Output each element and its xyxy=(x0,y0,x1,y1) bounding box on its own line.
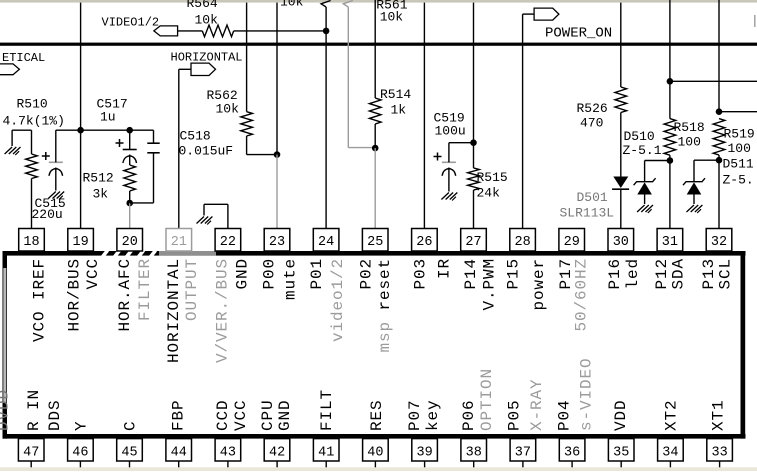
wire xyxy=(31,179,33,229)
capacitor C517 xyxy=(97,97,137,166)
diode D501 xyxy=(560,177,630,221)
svg-text:power: power xyxy=(530,258,548,311)
svg-text:10k: 10k xyxy=(195,13,219,28)
svg-text:10k: 10k xyxy=(216,102,240,117)
pin 29 label xyxy=(557,258,591,332)
svg-text:R526: R526 xyxy=(577,101,608,116)
svg-text:46: 46 xyxy=(72,445,88,460)
resistor R561 xyxy=(376,0,407,25)
wire xyxy=(130,202,154,204)
wire xyxy=(204,204,228,228)
wire xyxy=(80,3,82,229)
svg-text:27: 27 xyxy=(465,235,481,250)
svg-text:GND: GND xyxy=(276,399,294,431)
svg-text:43: 43 xyxy=(220,445,236,460)
svg-text:P07: P07 xyxy=(406,399,424,431)
pin 28 label xyxy=(505,258,549,311)
svg-text:32: 32 xyxy=(711,235,727,250)
svg-text:44: 44 xyxy=(171,445,187,460)
svg-text:1u: 1u xyxy=(100,110,116,125)
svg-text:reset: reset xyxy=(376,258,394,311)
resistor R514 xyxy=(369,87,411,124)
svg-text:100: 100 xyxy=(728,141,751,156)
pin 24 label xyxy=(308,258,347,342)
wire xyxy=(178,30,203,32)
svg-text:45: 45 xyxy=(121,445,137,460)
svg-text:msp: msp xyxy=(376,321,394,353)
svg-text:33: 33 xyxy=(711,445,727,460)
wire (cropped) xyxy=(754,15,756,27)
pin 42 label xyxy=(259,399,294,431)
svg-text:30: 30 xyxy=(613,235,629,250)
svg-text:D510: D510 xyxy=(624,129,655,144)
node POWER_ON xyxy=(523,8,613,41)
svg-text:220u: 220u xyxy=(32,207,63,222)
svg-text:100u: 100u xyxy=(435,124,466,139)
ground xyxy=(441,193,457,201)
capacitor C515 xyxy=(32,130,66,222)
pin 37 label xyxy=(506,378,547,431)
svg-text:mute: mute xyxy=(281,258,299,300)
pin 27 label xyxy=(462,258,499,311)
resistor (cropped) xyxy=(343,1,353,8)
svg-text:HORIZONTAL: HORIZONTAL xyxy=(165,258,183,363)
pin 43 label xyxy=(214,399,250,431)
svg-text:GND: GND xyxy=(234,258,252,290)
pin 36 xyxy=(559,439,585,468)
svg-text:X-RAY: X-RAY xyxy=(528,378,546,431)
pin 37 xyxy=(510,439,536,468)
svg-text:38: 38 xyxy=(466,445,482,460)
ground xyxy=(637,205,653,213)
node (junction) xyxy=(126,127,133,134)
pin 25 label (msp) xyxy=(376,321,394,353)
svg-text:35: 35 xyxy=(613,445,629,460)
wire xyxy=(56,129,81,131)
svg-text:D501: D501 xyxy=(577,190,608,205)
resistor R526 xyxy=(577,87,627,131)
svg-text:42: 42 xyxy=(269,445,285,460)
pin 34 label xyxy=(662,399,680,431)
svg-text:19: 19 xyxy=(72,235,88,250)
svg-text:R IN: R IN xyxy=(25,389,43,431)
node (junction) xyxy=(372,145,379,152)
svg-text:key: key xyxy=(424,399,442,431)
resistor (cropped) 10k xyxy=(280,0,331,10)
resistor R518 xyxy=(664,119,705,156)
svg-text:FBP: FBP xyxy=(170,399,188,431)
pin 19 label xyxy=(66,258,103,332)
svg-text:22: 22 xyxy=(220,235,236,250)
svg-text:P13: P13 xyxy=(700,258,718,290)
pin 18 xyxy=(19,229,45,252)
svg-text:29: 29 xyxy=(564,235,580,250)
svg-text:40: 40 xyxy=(367,445,383,460)
pin 26 label xyxy=(411,258,453,290)
svg-text:R564: R564 xyxy=(187,0,218,11)
diode D510 (zener) xyxy=(623,129,670,204)
wire xyxy=(325,7,327,229)
svg-text:HORIZONTAL: HORIZONTAL xyxy=(171,51,243,65)
wire xyxy=(129,203,131,229)
svg-text:VCC: VCC xyxy=(84,258,102,290)
wire xyxy=(718,160,720,228)
pin 21 xyxy=(166,229,192,252)
node VERTICAL xyxy=(0,51,45,75)
pin 30 label xyxy=(606,258,642,290)
svg-text:18: 18 xyxy=(23,235,39,250)
wire xyxy=(276,155,278,229)
pin 30 xyxy=(608,229,634,252)
svg-text:0.015uF: 0.015uF xyxy=(179,144,234,159)
svg-text:1k: 1k xyxy=(391,103,407,118)
node (junction) xyxy=(667,157,674,164)
pin 47 label xyxy=(25,389,64,431)
svg-text:31: 31 xyxy=(662,235,678,250)
svg-text:P04: P04 xyxy=(556,399,574,431)
svg-text:39: 39 xyxy=(416,445,432,460)
wire xyxy=(423,3,425,229)
wire xyxy=(522,14,524,228)
pin 40 xyxy=(363,439,389,468)
svg-text:21: 21 xyxy=(171,235,187,250)
wire xyxy=(620,189,622,228)
svg-text:100: 100 xyxy=(678,135,701,150)
wire xyxy=(374,148,376,229)
wire xyxy=(669,0,671,81)
svg-text:RES: RES xyxy=(368,399,386,431)
svg-text:P03: P03 xyxy=(411,258,429,290)
svg-text:4.7k(1%): 4.7k(1%) xyxy=(3,114,65,129)
svg-text:D511: D511 xyxy=(723,157,754,172)
wire xyxy=(620,113,622,177)
svg-text:26: 26 xyxy=(416,235,432,250)
watermark on IC edge xyxy=(100,249,216,259)
svg-text:P02: P02 xyxy=(357,258,375,290)
svg-text:SCL: SCL xyxy=(717,258,735,290)
svg-text:R518: R518 xyxy=(674,120,705,135)
pin 38 label xyxy=(460,368,496,431)
pin 32 label xyxy=(700,258,735,290)
node VIDEO1/2 xyxy=(102,16,178,36)
ground xyxy=(48,192,64,200)
svg-text:P14: P14 xyxy=(462,258,480,290)
svg-text:s-VIDEO: s-VIDEO xyxy=(578,357,596,431)
pin 23 xyxy=(264,229,290,252)
pin 20 xyxy=(117,229,143,252)
svg-text:24: 24 xyxy=(318,235,334,250)
wire xyxy=(670,80,757,82)
svg-text:OPTION: OPTION xyxy=(478,368,496,431)
svg-text:24k: 24k xyxy=(477,186,501,201)
wire xyxy=(473,3,475,143)
pin 25 label xyxy=(357,258,394,311)
wire xyxy=(81,129,130,131)
svg-text:28: 28 xyxy=(514,235,530,250)
svg-text:10k: 10k xyxy=(380,10,404,25)
wire xyxy=(449,142,474,144)
svg-text:HOR/BUS: HOR/BUS xyxy=(66,258,84,332)
wire xyxy=(246,3,248,112)
pin 39 xyxy=(412,439,438,468)
pin 18 label xyxy=(31,258,49,342)
wire xyxy=(620,3,622,87)
svg-text:V/VER./BUS: V/VER./BUS xyxy=(214,258,232,363)
ground xyxy=(5,147,21,155)
svg-text:25: 25 xyxy=(367,235,383,250)
capacitor C518 xyxy=(147,129,233,203)
svg-text:P05: P05 xyxy=(506,399,524,431)
svg-text:R519: R519 xyxy=(724,127,755,142)
svg-text:R510: R510 xyxy=(17,97,48,112)
ground xyxy=(197,217,213,225)
capacitor C519 xyxy=(434,111,466,192)
pin 22 label xyxy=(214,258,252,363)
svg-text:VDD: VDD xyxy=(612,399,630,431)
pin 22 xyxy=(215,229,241,252)
wire xyxy=(247,136,277,155)
op-amp U1 (IC body top edge) xyxy=(3,251,746,256)
pin 27 xyxy=(461,229,487,252)
diode D511 (zener) xyxy=(683,157,754,205)
svg-text:36: 36 xyxy=(564,445,580,460)
node (junction) xyxy=(77,127,84,134)
resistor R512 xyxy=(83,165,136,202)
pin 21 label xyxy=(165,258,201,363)
pin 24 xyxy=(313,229,339,252)
IC body left edge watermark xyxy=(3,268,6,403)
resistor R519 xyxy=(713,119,755,156)
svg-text:P16: P16 xyxy=(606,258,624,290)
svg-text:R514: R514 xyxy=(380,87,411,102)
wire xyxy=(374,124,376,148)
wire xyxy=(129,191,131,203)
pin 35 label xyxy=(612,399,630,431)
wire xyxy=(669,161,671,229)
svg-text:50/60HZ: 50/60HZ xyxy=(573,258,591,332)
svg-text:SDA: SDA xyxy=(670,258,688,290)
svg-text:41: 41 xyxy=(318,445,334,460)
node (junction) xyxy=(274,151,281,158)
wire xyxy=(130,129,154,131)
svg-text:FILT: FILT xyxy=(318,389,336,431)
wire xyxy=(276,3,278,155)
pin 48 label (cropped) xyxy=(0,389,13,431)
pin 46 label xyxy=(72,420,90,431)
pin 25 xyxy=(362,229,388,252)
node HORIZONTAL xyxy=(171,51,243,76)
svg-text:P01: P01 xyxy=(308,258,326,290)
svg-text:FILTER: FILTER xyxy=(136,258,154,321)
node (junction) xyxy=(470,139,477,146)
pin 19 xyxy=(68,229,94,252)
svg-text:470: 470 xyxy=(580,116,603,131)
pin 32 xyxy=(706,229,732,252)
pin 41 xyxy=(313,439,339,468)
svg-text:V.PWM: V.PWM xyxy=(481,258,499,311)
svg-text:ETICAL: ETICAL xyxy=(2,51,45,65)
pin 45 label xyxy=(122,420,140,431)
wire xyxy=(718,155,720,160)
wire xyxy=(374,0,376,98)
svg-text:OUTPUT: OUTPUT xyxy=(183,258,201,321)
pin 31 xyxy=(657,229,683,252)
wire xyxy=(669,81,671,160)
pin 39 label xyxy=(406,399,442,431)
pin 42 xyxy=(264,439,290,468)
svg-text:23: 23 xyxy=(269,235,285,250)
resistor R515 xyxy=(468,168,508,201)
pin 35 xyxy=(608,439,634,468)
pin 43 xyxy=(215,439,241,468)
svg-text:VCO IREF: VCO IREF xyxy=(31,258,49,342)
pin 33 xyxy=(707,439,733,468)
node (junction) xyxy=(716,157,723,164)
svg-text:video1/2: video1/2 xyxy=(329,258,347,342)
wire xyxy=(718,0,720,112)
pin 23 label xyxy=(260,258,299,300)
pin 40 label xyxy=(368,399,386,431)
svg-text:led: led xyxy=(624,258,642,290)
svg-text:R515: R515 xyxy=(477,170,508,185)
pin 41 label xyxy=(318,389,336,431)
pin 20 label xyxy=(116,258,154,332)
svg-text:VCC: VCC xyxy=(232,399,250,431)
svg-text:P06: P06 xyxy=(460,399,478,431)
svg-text:C: C xyxy=(122,420,140,431)
svg-text:47: 47 xyxy=(23,445,39,460)
pin 28 xyxy=(510,229,536,252)
pin 46 xyxy=(68,439,94,468)
svg-text:P15: P15 xyxy=(505,258,523,290)
pin 36 label xyxy=(556,357,596,431)
wire xyxy=(234,30,326,32)
svg-text:3k: 3k xyxy=(93,187,109,202)
svg-text:Z-5.: Z-5. xyxy=(723,173,754,188)
svg-text:XT1: XT1 xyxy=(710,399,728,431)
svg-text:37: 37 xyxy=(515,445,531,460)
node (junction) xyxy=(716,108,723,115)
wire (thick horizontal rail) xyxy=(0,43,757,46)
IC body right edge xyxy=(741,251,746,439)
IC body left edge xyxy=(3,251,8,439)
svg-text:20: 20 xyxy=(122,235,138,250)
pin 33 label xyxy=(710,399,728,431)
svg-text:CPU: CPU xyxy=(259,399,277,431)
svg-text:R512: R512 xyxy=(83,171,114,186)
svg-text:CCD: CCD xyxy=(214,399,232,431)
svg-text:34: 34 xyxy=(662,445,678,460)
pin 47 xyxy=(18,439,44,468)
svg-text:C518: C518 xyxy=(180,129,211,144)
wire xyxy=(719,111,757,113)
resistor R564 xyxy=(187,0,234,37)
svg-text:DDS: DDS xyxy=(46,399,64,431)
pin 45 xyxy=(117,439,143,468)
svg-text:IR: IR xyxy=(436,258,454,279)
wire xyxy=(178,69,180,228)
resistor R510 xyxy=(3,97,65,179)
wire xyxy=(473,143,475,229)
svg-text:POWER_ON: POWER_ON xyxy=(545,26,612,42)
pin 26 xyxy=(412,229,438,252)
pin 34 xyxy=(658,439,684,468)
ground xyxy=(687,205,703,213)
svg-text:P00: P00 xyxy=(260,258,278,290)
node (junction) xyxy=(667,78,674,85)
pin 44 label xyxy=(170,399,188,431)
node (junction) xyxy=(323,28,330,35)
svg-text:VIDEO1/2: VIDEO1/2 xyxy=(102,16,160,30)
svg-text:SLR113L: SLR113L xyxy=(560,206,615,221)
svg-text:XT2: XT2 xyxy=(662,399,680,431)
IC body bottom edge xyxy=(3,434,746,439)
node (junction) xyxy=(126,200,133,207)
svg-text:HOR.AFC: HOR.AFC xyxy=(116,258,134,332)
pin 31 label xyxy=(653,258,688,290)
svg-text:Y: Y xyxy=(72,420,90,431)
pin 29 xyxy=(559,229,585,252)
pin 38 xyxy=(461,439,487,468)
wire xyxy=(12,130,31,154)
resistor R562 xyxy=(207,88,253,136)
svg-text:P12: P12 xyxy=(653,258,671,290)
pin 44 xyxy=(166,439,192,468)
wire (gray net) xyxy=(348,7,375,148)
svg-text:Z-5.1: Z-5.1 xyxy=(623,143,662,158)
svg-text:10k: 10k xyxy=(280,0,304,10)
svg-text:DVDD: DVDD xyxy=(0,389,13,431)
